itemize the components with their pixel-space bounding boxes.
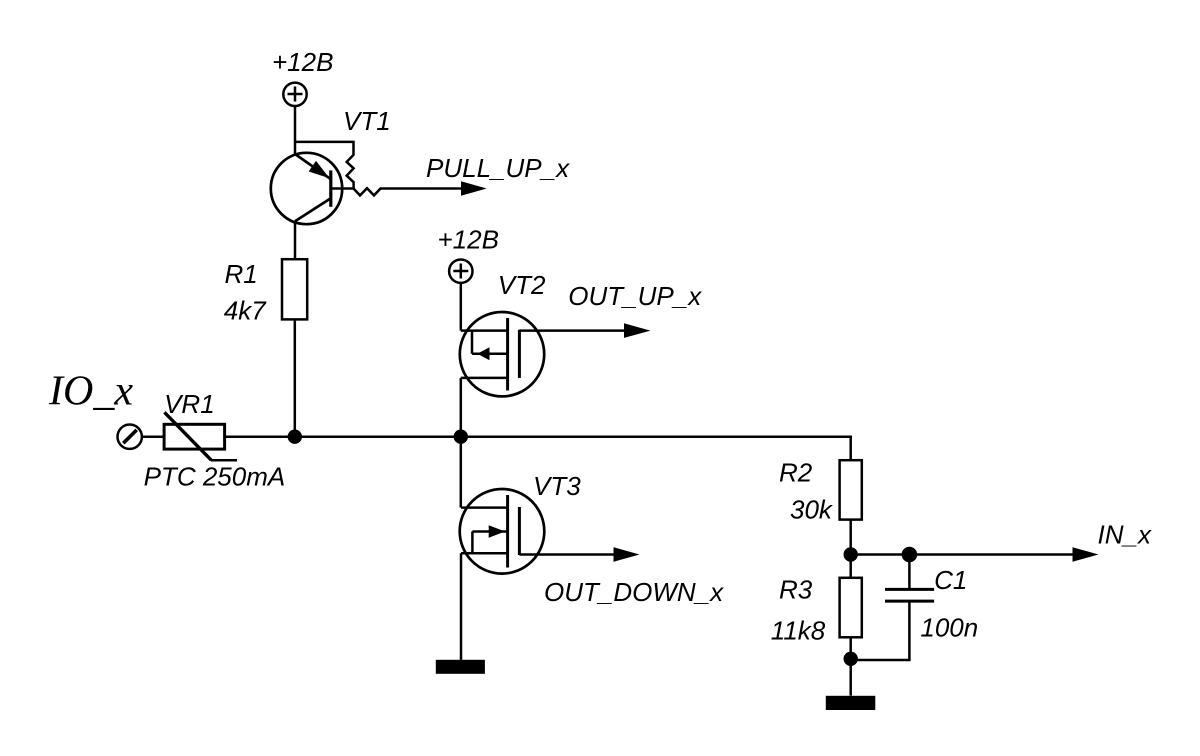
svg-text:PTC 250mA: PTC 250mA (144, 462, 286, 492)
svg-text:PULL_UP_x: PULL_UP_x (426, 153, 570, 183)
svg-text:100n: 100n (920, 612, 978, 642)
svg-text:R2: R2 (779, 458, 813, 488)
svg-text:30k: 30k (790, 494, 834, 524)
svg-text:11k8: 11k8 (771, 615, 826, 645)
svg-text:4k7: 4k7 (224, 295, 267, 325)
svg-text:IN_x: IN_x (1098, 520, 1152, 550)
svg-text:R1: R1 (225, 259, 258, 289)
svg-text:VT1: VT1 (343, 106, 391, 136)
svg-text:OUT_UP_x: OUT_UP_x (568, 281, 702, 311)
svg-text:R3: R3 (779, 574, 813, 604)
svg-text:VT3: VT3 (533, 471, 581, 501)
svg-text:IO_x: IO_x (48, 369, 133, 415)
svg-text:OUT_DOWN_x: OUT_DOWN_x (544, 577, 724, 607)
svg-text:+12B: +12B (438, 225, 499, 255)
svg-text:VT2: VT2 (498, 270, 546, 300)
svg-text:C1: C1 (934, 565, 967, 595)
svg-text:VR1: VR1 (164, 389, 215, 419)
svg-text:+12B: +12B (272, 47, 333, 77)
